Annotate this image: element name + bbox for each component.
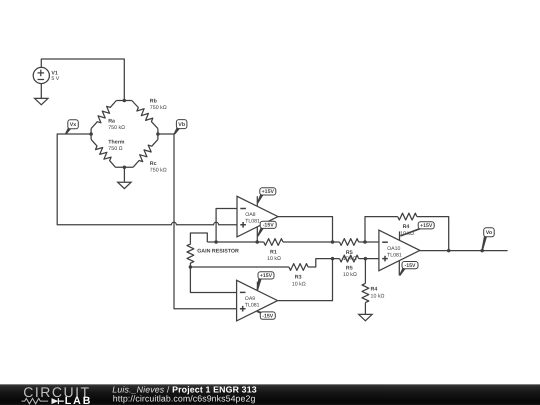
svg-text:OA10: OA10 (387, 246, 400, 252)
svg-text:Therm: Therm (108, 139, 124, 145)
wire R5 lower to OA10 + input (359, 258, 379, 260)
svg-text:R3: R3 (295, 275, 302, 281)
svg-text:-15V: -15V (405, 263, 416, 269)
resistor R4 10k (feedback) (398, 213, 417, 237)
ground below bridge (118, 182, 131, 188)
thermistor Therm 750 (bridge left-bottom arm) (91, 139, 125, 167)
OA9 V+ pin stub (256, 282, 258, 291)
resistor Rb 750k (bridge top-right arm) (132, 98, 167, 128)
svg-text:GAIN RESISTOR: GAIN RESISTOR (197, 249, 239, 255)
svg-text:-15V: -15V (262, 313, 273, 319)
op-amp OA9 TL081 (237, 280, 278, 321)
svg-text:Rc: Rc (150, 161, 157, 167)
resistor R1 10k (264, 239, 283, 262)
CircuitLab logo resistor zigzag (22, 398, 49, 403)
svg-text:750 kΩ: 750 kΩ (150, 105, 167, 111)
OA10 V+ pin stub (399, 231, 401, 240)
wire OA9 node to R3 (190, 266, 289, 268)
op-amp OA8 TL081 (237, 196, 278, 237)
wire node Vx to OA8 + input (with hops) (57, 134, 237, 225)
voltage source V1 5V (33, 67, 60, 83)
wire R4 ground branch (364, 259, 366, 284)
resistor R4 10k (to ground) (362, 283, 385, 302)
flag +15V (OA10) (400, 222, 434, 237)
resistor R5 10k (upper) (340, 239, 359, 263)
wire OA9 output to plus node (278, 259, 333, 301)
bridge node flats (91, 101, 158, 168)
svg-text:R5: R5 (346, 266, 353, 272)
flag Vo (481, 228, 494, 251)
CircuitLab logo diode (52, 398, 59, 404)
wire OA8 output to node (278, 217, 333, 242)
svg-text:Rb: Rb (150, 98, 158, 104)
svg-text:http://circuitlab.com/c6s9nks5: http://circuitlab.com/c6s9nks54pe2g (113, 394, 256, 404)
OA10 V- pin stub (398, 261, 400, 276)
svg-text:-15V: -15V (263, 223, 274, 229)
svg-text:TL081: TL081 (387, 252, 402, 258)
svg-text:+15V: +15V (420, 223, 433, 229)
svg-text:750 Ω: 750 Ω (108, 146, 122, 152)
svg-text:5 V: 5 V (51, 76, 59, 82)
wire bridge bottom to ground (123, 167, 125, 182)
footer bar (0, 384, 540, 405)
wire inverting line (207, 241, 263, 243)
resistor R3 10k (289, 264, 308, 288)
svg-text:+15V: +15V (262, 189, 275, 195)
svg-text:LAB: LAB (65, 395, 92, 405)
OA8 V- pin stub (256, 226, 258, 242)
svg-text:Vx: Vx (70, 122, 77, 128)
resistor GAIN RESISTOR (187, 240, 239, 267)
wire R5 to OA10 - input (359, 241, 379, 243)
flag +15V (OA8) (257, 188, 276, 204)
wire node Vb to OA9 + input (158, 134, 237, 309)
svg-text:TL081: TL081 (245, 219, 260, 225)
svg-text:+15V: +15V (260, 273, 273, 279)
svg-text:OA9: OA9 (245, 296, 255, 302)
svg-text:750 kΩ: 750 kΩ (150, 167, 167, 173)
resistor Ra 750k (bridge left-top arm) (91, 101, 125, 131)
flag Vb (174, 120, 187, 135)
wire R4 feedback to output (417, 217, 449, 251)
svg-text:OA8: OA8 (245, 212, 255, 218)
wire R3 to plus line (308, 259, 339, 267)
resistor R5 10k (lower) (340, 255, 359, 278)
flag -15V (OA9) (257, 311, 275, 319)
svg-text:R4: R4 (371, 287, 378, 293)
svg-text:R1: R1 (270, 249, 277, 255)
svg-text:TL081: TL081 (245, 303, 260, 309)
wire V1 top to bridge top (41, 59, 124, 101)
svg-text:750 kΩ: 750 kΩ (108, 125, 125, 131)
flag -15V (OA8) (257, 221, 276, 236)
svg-text:R5: R5 (346, 250, 353, 256)
wire R4 to ground (364, 303, 366, 315)
wire V1 to ground (40, 84, 42, 99)
OA9 V- pin stub (256, 311, 258, 313)
wire OA8 - input loop (216, 209, 237, 243)
wire OA10 output Vo (420, 250, 508, 252)
ground below V1 (35, 98, 48, 104)
wire feedback R4 loop (365, 217, 398, 242)
svg-text:R4: R4 (403, 224, 410, 230)
wire R1 to R5 (283, 241, 340, 243)
wire gain resistor top lead (190, 233, 207, 242)
svg-text:Vo: Vo (486, 230, 493, 236)
flag -15V (OA10) (399, 262, 418, 277)
svg-text:10 kΩ: 10 kΩ (267, 256, 281, 262)
svg-text:10 kΩ: 10 kΩ (292, 282, 306, 288)
OA8 V+ pin stub (256, 196, 258, 206)
ground below R4 (359, 314, 372, 320)
op-amp OA10 TL081 (379, 230, 420, 271)
svg-text:Ra: Ra (108, 118, 115, 124)
flag +15V (OA9) (257, 272, 274, 291)
flag Vx (65, 120, 78, 135)
resistor Rc 750k (bridge bottom-right arm) (133, 139, 167, 173)
wire gain resistor to OA9 - input (190, 267, 236, 293)
svg-text:Vb: Vb (178, 122, 186, 128)
svg-text:10 kΩ: 10 kΩ (371, 293, 385, 299)
svg-text:10 kΩ: 10 kΩ (343, 272, 357, 278)
